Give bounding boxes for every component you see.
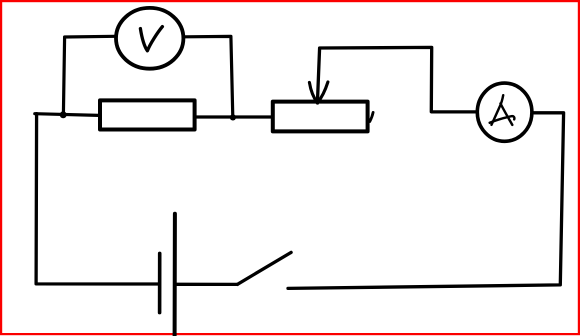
wire: ammeter right lead + right vertical + bottom to switch contact <box>288 113 564 289</box>
node B (junction dot right) <box>230 114 236 120</box>
resistor R (rectangle) <box>100 100 195 129</box>
rheostat (rectangle) <box>273 102 368 132</box>
wire: voltmeter left lead (up from node A) <box>63 36 114 114</box>
ammeter glyph: right leg <box>501 104 513 125</box>
ammeter glyph: apex + left leg <box>492 95 504 125</box>
wire: left vertical + bottom-left horizontal to battery <box>36 114 158 284</box>
voltmeter V <box>116 8 183 69</box>
wire: node B horizontal through resistor right to rheostat left <box>195 115 271 118</box>
ammeter glyph: crossbar with hook <box>490 116 515 123</box>
small tick at rheostat right terminal <box>370 112 373 121</box>
battery: short plate (negative) <box>158 253 162 312</box>
wire: voltmeter right lead (down to node B) <box>185 36 233 117</box>
switch blade (open) <box>237 252 291 284</box>
wire: node A to resistor left <box>35 114 99 116</box>
node A (junction dot left) <box>60 111 67 118</box>
wire: battery to switch pivot <box>177 283 238 286</box>
rheostat wiper arrow shaft + wire up/over/down to ammeter <box>317 47 475 112</box>
arrowhead left wing <box>309 82 317 102</box>
arrowhead right wing <box>318 82 328 103</box>
ammeter A <box>477 83 532 141</box>
battery: long plate (positive) <box>173 214 177 336</box>
